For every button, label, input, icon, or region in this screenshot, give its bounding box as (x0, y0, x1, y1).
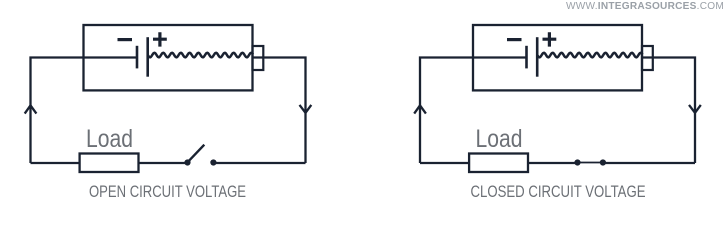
wire: bottom-left to load (right) (420, 162, 469, 164)
switch SW2 closed: throw node (600, 159, 606, 165)
wire: outer top-left run to battery negative plate (right) (420, 58, 526, 164)
battery BT2 positive plate (536, 37, 539, 76)
battery terminal (right) (642, 46, 653, 70)
svg-text:Load: Load (476, 125, 523, 153)
switch SW1 open: pole node (184, 159, 190, 165)
internal resistance squiggle R1 (left) (148, 53, 253, 58)
battery BT2 negative plate (525, 46, 528, 69)
wire: outer top-left run to battery negative plate (31, 58, 137, 164)
battery box BT1 (left) (84, 25, 253, 90)
wire: switch to bottom-right (right) (603, 162, 695, 164)
switch SW2 closed link (578, 162, 603, 164)
battery terminal (left) (253, 46, 264, 70)
switch SW1 lever (188, 145, 205, 163)
switch SW2 closed: pole node (574, 159, 580, 165)
battery box BT2 (right) (473, 25, 642, 90)
plus label (153, 32, 167, 46)
wire: switch to bottom-right (213, 162, 305, 164)
plus label (right) (543, 32, 557, 46)
svg-text:OPEN CIRCUIT VOLTAGE: OPEN CIRCUIT VOLTAGE (89, 183, 246, 200)
wire: load to switch (right) (528, 162, 578, 164)
wire: load to switch (139, 162, 188, 164)
internal resistance squiggle R2 (right) (538, 53, 643, 58)
minus label (118, 38, 133, 41)
current arrow up (left circuit) (25, 105, 37, 113)
battery BT1 positive plate (146, 37, 149, 76)
svg-text:Load: Load (86, 125, 133, 153)
switch SW1 open: throw node (210, 159, 216, 165)
wire: bottom-left to load (31, 162, 80, 164)
svg-text:CLOSED CIRCUIT VOLTAGE: CLOSED CIRCUIT VOLTAGE (471, 183, 646, 200)
current arrow down (left circuit) (300, 105, 312, 113)
load resistor RL1 (left) (80, 154, 139, 173)
battery BT1 negative plate (136, 46, 139, 69)
wire: terminal to top-right corner (253, 58, 306, 164)
current arrow down (right circuit) (689, 105, 701, 113)
minus label (right) (507, 38, 522, 41)
wire: terminal to top-right corner (right) (643, 58, 696, 164)
svg-text:WWW.INTEGRASOURCES.COM: WWW.INTEGRASOURCES.COM (566, 1, 724, 12)
current arrow up (right circuit) (414, 105, 426, 113)
load resistor RL2 (right) (469, 154, 528, 173)
